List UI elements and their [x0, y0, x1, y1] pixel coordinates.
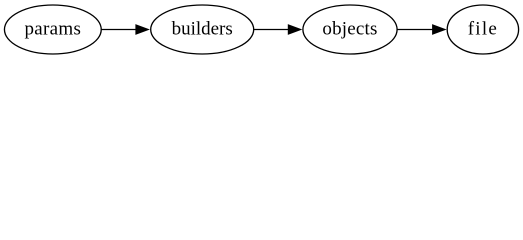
- arrowhead builders to objects: [288, 25, 301, 34]
- arrowhead params to builders: [136, 25, 149, 34]
- svg-text:file: file: [468, 19, 498, 40]
- svg-text:objects: objects: [322, 19, 377, 40]
- node params: [4, 5, 101, 54]
- wire objects to file: [397, 29, 433, 31]
- node file: [447, 5, 518, 54]
- node objects: [303, 5, 397, 54]
- node builders: [151, 5, 254, 54]
- arrowhead objects to file: [433, 25, 446, 34]
- wire builders to objects: [254, 29, 289, 31]
- wire params to builders: [101, 29, 137, 31]
- svg-text:params: params: [25, 19, 82, 40]
- svg-text:builders: builders: [172, 19, 233, 40]
